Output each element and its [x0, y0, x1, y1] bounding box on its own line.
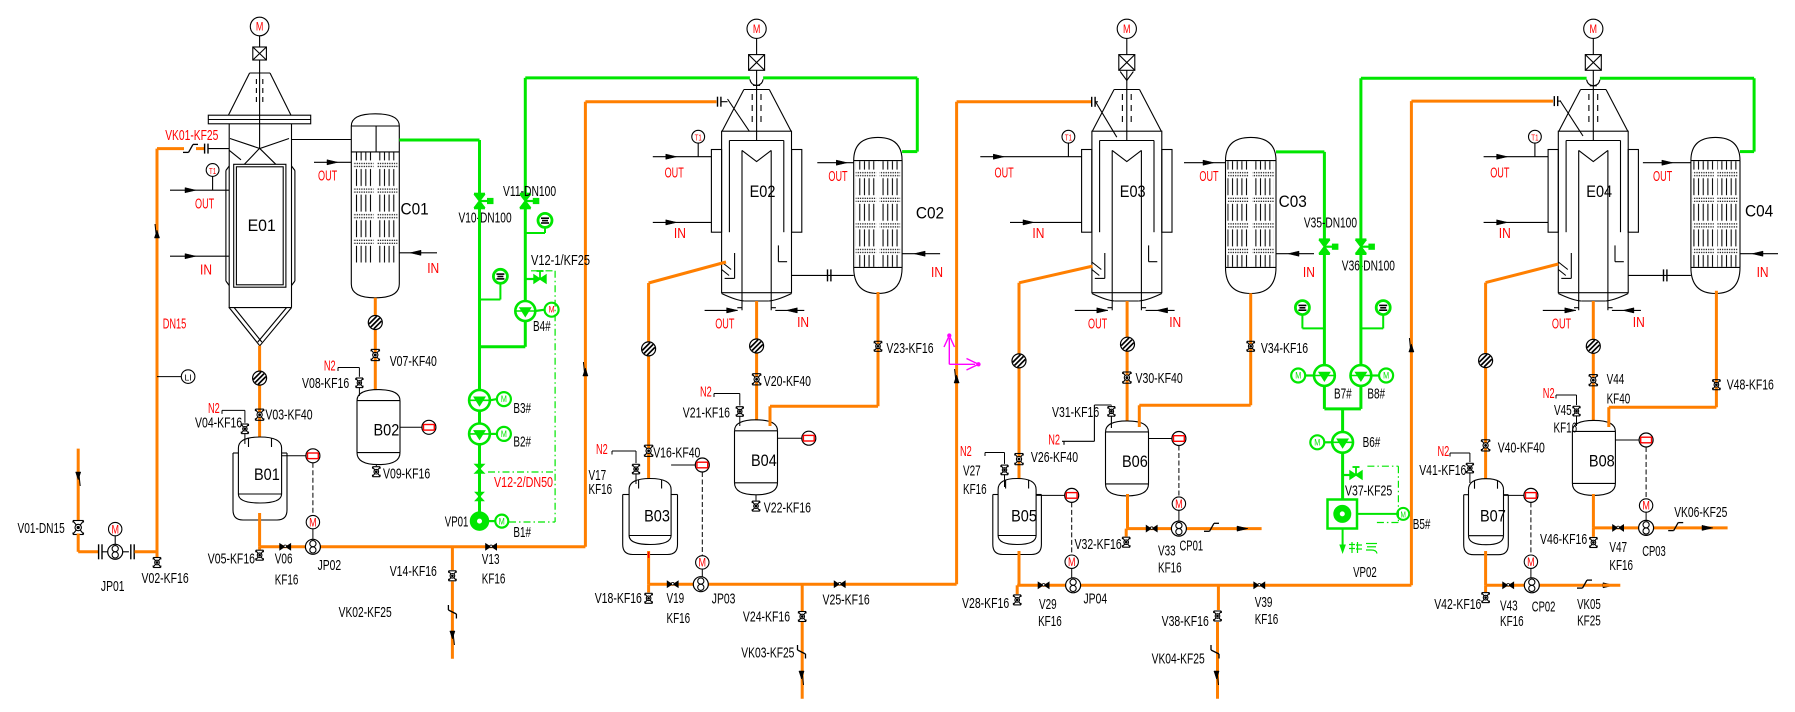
strainer on E01 outlet [253, 371, 267, 385]
svg-text:IN: IN [674, 225, 686, 242]
valve V40-KF40 [1481, 440, 1489, 451]
evaporator E03 draft pockets [1092, 245, 1158, 278]
svg-text:IN: IN [1303, 264, 1315, 281]
svg-text:KF40: KF40 [1607, 390, 1631, 407]
label V26-KF40 [1031, 449, 1078, 466]
label V33 [1158, 543, 1182, 577]
wire B05 to header [1018, 551, 1021, 585]
check valve VK05-KF25 [1577, 580, 1592, 588]
label V32-KF16 [1075, 536, 1122, 553]
svg-text:V18-KF16: V18-KF16 [595, 590, 642, 607]
label IN C03 [1303, 264, 1315, 281]
condenser C03 shell [1226, 137, 1277, 293]
vent notch E03 [1120, 72, 1133, 81]
valve V35-DN100 [1319, 240, 1338, 254]
svg-text:V04-KF16: V04-KF16 [195, 415, 242, 432]
motor M of E02 [747, 19, 766, 54]
label VK01-KF25 [165, 127, 218, 144]
valve V44-KF40 [1589, 375, 1597, 386]
E02 bottom IN stub [775, 308, 804, 313]
agitator shaft E01 [259, 60, 261, 148]
label V02-KF16 [142, 570, 189, 587]
label V12-1/KF25 [531, 252, 590, 269]
svg-text:OUT: OUT [1199, 168, 1218, 185]
svg-text:IN: IN [1169, 314, 1181, 331]
evaporator E01 flange [208, 115, 310, 124]
svg-text:V37-KF25: V37-KF25 [1345, 483, 1392, 500]
junction V38 [1217, 585, 1220, 610]
svg-text:V48-KF16: V48-KF16 [1727, 377, 1774, 394]
pump JP02 [305, 539, 320, 554]
check valve VK01-KF25 [183, 144, 198, 152]
relief VK04-KF25 [1211, 645, 1219, 659]
svg-text:M: M [1383, 371, 1389, 381]
svg-text:V36-DN100: V36-DN100 [1342, 258, 1395, 275]
wire green B4 to main [480, 321, 526, 347]
E01 jacket OUT stub [170, 188, 229, 193]
pump CP02 [1524, 578, 1539, 593]
vacuum pump VP01 [471, 513, 508, 530]
label N2 B07 [1438, 443, 1450, 460]
svg-text:N2: N2 [1438, 443, 1450, 460]
nitrogen line V04-KF16 [222, 410, 249, 444]
nitrogen line V21-KF16 [714, 394, 743, 427]
flow arrow drain1 [450, 631, 455, 645]
svg-text:M: M [256, 20, 264, 34]
svg-text:V32-KF16: V32-KF16 [1075, 536, 1122, 553]
valve V18-KF16 [645, 584, 653, 603]
flow arrow riser1 up [583, 362, 588, 376]
wire drain train3 [1216, 622, 1219, 699]
gearbox of E04 [1585, 55, 1601, 71]
svg-text:V39: V39 [1255, 594, 1273, 611]
label V01-DN15 [18, 520, 65, 537]
gauge on V10 line [480, 269, 508, 299]
label B02 [374, 422, 400, 440]
svg-text:CP03: CP03 [1642, 543, 1666, 560]
label OUT E04 bottom [1552, 315, 1571, 332]
svg-text:N2: N2 [324, 357, 336, 374]
wire riser2 [957, 102, 1091, 584]
nitrogen line V17-KF16 [612, 451, 640, 484]
label V48-KF16 [1727, 377, 1774, 394]
label V47 [1609, 539, 1633, 574]
svg-text:OUT: OUT [715, 315, 734, 332]
svg-text:V12-1/KF25: V12-1/KF25 [531, 252, 590, 269]
nitrogen line V31-KF16 [1062, 405, 1115, 445]
label CP03 [1642, 543, 1666, 560]
svg-text:JP02: JP02 [318, 557, 342, 574]
svg-text:VP02: VP02 [1353, 564, 1377, 581]
svg-text:T1: T1 [1065, 134, 1073, 143]
valve V03-KF40 [255, 409, 263, 420]
svg-text:VK05: VK05 [1577, 596, 1601, 613]
svg-text:KF16: KF16 [1255, 611, 1279, 628]
wire green V10 down [478, 208, 481, 521]
E04 bottom OUT stub [1543, 308, 1576, 313]
evaporator E01 top cone [228, 73, 291, 115]
svg-text:V19: V19 [667, 590, 685, 607]
motor M of JP01 [109, 522, 122, 544]
wire green V35 down [1323, 254, 1326, 366]
svg-text:V20-KF40: V20-KF40 [764, 373, 811, 390]
pump B2# [469, 424, 511, 445]
vessel B07 inner [1469, 479, 1504, 545]
svg-text:DN15: DN15 [163, 315, 187, 332]
evaporator E04 draft pockets [1558, 245, 1624, 278]
strainer on E04 drain [1479, 354, 1493, 368]
E01 jacket IN stub [170, 254, 229, 259]
E04 jacket OUT stub [1484, 154, 1549, 159]
label IN C01 [427, 260, 439, 277]
dashed enclosure vacuum skid 2 [1367, 466, 1398, 522]
label C03 [1279, 193, 1307, 211]
wire E03 to B06 [1126, 301, 1129, 421]
label V43 [1500, 597, 1524, 630]
wire header train4 [1486, 584, 1603, 587]
svg-text:OUT: OUT [1653, 168, 1672, 185]
label V06 [275, 551, 299, 589]
label V34-KF16 [1261, 340, 1308, 357]
label V29 [1038, 596, 1062, 630]
svg-text:OUT: OUT [995, 165, 1014, 182]
strainer on E03 drain [1012, 354, 1026, 368]
C03 OUT stub [1184, 160, 1226, 165]
svg-text:VP01: VP01 [445, 514, 469, 531]
valve V14-KF16 [449, 571, 457, 581]
label B5# [1413, 516, 1431, 533]
C04 IN stub [1740, 251, 1778, 256]
wire C04 outlet [1609, 291, 1717, 427]
valve V34-KF16 [1247, 341, 1255, 351]
label V44-KF40 [1607, 371, 1631, 407]
label CP02 [1532, 599, 1556, 616]
svg-text:IN: IN [797, 314, 809, 331]
wire DN15 riser [156, 149, 159, 552]
vacuum pump VP02 [1328, 500, 1410, 529]
condenser C01 tube bundle [353, 153, 397, 263]
label IN E03 bottom [1169, 314, 1181, 331]
label VK03-KF25 [741, 645, 794, 662]
svg-text:C04: C04 [1745, 202, 1773, 220]
label V13 [482, 551, 506, 588]
strainer on E03 outlet [1121, 337, 1135, 351]
svg-text:B05: B05 [1011, 508, 1037, 526]
strainer on E02 outlet [750, 339, 764, 353]
flange at E03 inlet [1092, 97, 1117, 137]
gearbox of E03 [1119, 55, 1135, 71]
vessel B07 shell [1464, 495, 1509, 555]
label OUT E03 bottom [1088, 315, 1107, 332]
evaporator E03 bottom dish [1092, 294, 1162, 302]
gauge on V11 line [525, 213, 552, 233]
label V37-KF25 [1345, 483, 1392, 500]
svg-text:V13: V13 [482, 551, 500, 568]
label V27-KF16 [963, 462, 987, 498]
fitting below V12-2 [476, 493, 483, 501]
wire E04 to C04 [1628, 269, 1691, 281]
valve V47 [1613, 525, 1624, 531]
svg-text:KF16: KF16 [589, 481, 613, 498]
vessel B06 shell [1106, 421, 1149, 496]
E03 bottom IN stub [1146, 308, 1175, 313]
label V11-DN100 [503, 183, 556, 200]
gauge on V36 line [1361, 301, 1390, 329]
pump JP01 [99, 544, 135, 559]
level instrument on riser [157, 370, 195, 384]
label B1# [513, 524, 531, 541]
svg-text:V23-KF16: V23-KF16 [886, 340, 933, 357]
svg-text:OUT: OUT [665, 165, 684, 182]
wire JP01 to riser [135, 550, 159, 553]
label VK02-KF25 [339, 604, 392, 621]
label V23-KF16 [886, 340, 933, 357]
svg-text:V34-KF16: V34-KF16 [1261, 340, 1308, 357]
label B07 [1480, 508, 1506, 526]
evaporator E02 top cone [722, 90, 791, 132]
svg-text:V26-KF40: V26-KF40 [1031, 449, 1078, 466]
evaporator E02 body [722, 131, 792, 310]
wire B01 to header [258, 513, 261, 547]
wire E03 drain diagonal [1019, 266, 1093, 478]
flow arrow feed down [76, 472, 81, 486]
condenser C03 tube bundle [1228, 161, 1275, 267]
condenser C02 tube bundle [856, 161, 900, 267]
svg-text:M: M [1527, 555, 1535, 569]
level transmitter B06 [1149, 432, 1186, 522]
motor M of E03 [1117, 19, 1136, 54]
wire B03 to header [647, 551, 650, 584]
agitator shaft E04 [1589, 70, 1598, 140]
valve V36-DN100 [1355, 240, 1374, 254]
svg-text:M: M [1642, 499, 1650, 513]
svg-text:KF25: KF25 [1577, 612, 1601, 629]
svg-text:M: M [501, 429, 507, 439]
label N2 B04 [700, 383, 712, 400]
svg-text:OUT: OUT [1552, 315, 1571, 332]
instrument T1 on E03 [1062, 130, 1075, 156]
evaporator E02 bottom dish [722, 294, 792, 302]
wire E02 to C02 [792, 269, 854, 281]
nitrogen line V27-KF16 [985, 453, 1008, 488]
label V03-KF40 [265, 406, 312, 423]
flow arrow drain2 [799, 671, 804, 685]
svg-text:V33: V33 [1158, 543, 1176, 560]
svg-text:VK03-KF25: VK03-KF25 [741, 645, 794, 662]
label V40-KF40 [1498, 439, 1545, 456]
wire green V11 down [524, 208, 527, 311]
label B01 [254, 466, 280, 484]
valve V12-2 [475, 465, 483, 474]
svg-text:M: M [753, 22, 761, 36]
label OUT C03 [1199, 168, 1218, 185]
wire E04 to B08 [1592, 301, 1595, 420]
svg-text:B4#: B4# [533, 318, 551, 335]
svg-text:V05-KF16: V05-KF16 [208, 550, 255, 567]
valve V09-KF16 [373, 465, 381, 477]
level transmitter B05 [1036, 488, 1079, 577]
agitator shaft E02 [752, 70, 761, 140]
label E04 [1586, 183, 1612, 201]
svg-text:KF16: KF16 [482, 571, 506, 588]
label IN E04 [1499, 225, 1511, 242]
valve V24-KF16 [798, 612, 806, 622]
valve V16-KF40 [644, 445, 652, 456]
label JP04 [1084, 591, 1108, 608]
wire header train3 [1017, 584, 1411, 587]
label JP02 [318, 557, 342, 574]
valve V28-KF16 [1013, 585, 1021, 605]
wire V01 to JP01 [78, 534, 98, 552]
vessel B03 shell [623, 495, 678, 555]
svg-text:E02: E02 [750, 183, 776, 201]
svg-text:V02-KF16: V02-KF16 [142, 570, 189, 587]
svg-text:KF16: KF16 [1609, 557, 1633, 574]
svg-text:M: M [499, 517, 505, 527]
valve V19 [667, 581, 678, 587]
vessel B02 shell [357, 390, 400, 465]
motor M of E04 [1584, 19, 1603, 54]
label N2 B03 [596, 441, 608, 458]
flange at E04 inlet [1554, 96, 1583, 136]
svg-text:V22-KF16: V22-KF16 [764, 499, 811, 516]
label OUT E04 [1490, 165, 1509, 182]
svg-text:V06: V06 [275, 551, 293, 568]
wire C02 outlet [770, 292, 878, 426]
svg-text:B6#: B6# [1363, 434, 1381, 451]
valve V01-DN15 [73, 521, 84, 535]
label V17-KF16 [589, 467, 613, 498]
label N2 B08 [1543, 385, 1555, 402]
svg-text:LI: LI [185, 374, 192, 383]
C01 IN stub [399, 250, 437, 255]
svg-text:IN: IN [200, 262, 212, 279]
svg-text:V14-KF16: V14-KF16 [390, 563, 437, 580]
svg-text:IN: IN [1633, 314, 1645, 331]
svg-text:V35-DN100: V35-DN100 [1304, 215, 1357, 232]
vapor seal cup E04 [1587, 80, 1600, 86]
wire B08 to CP03 [1593, 494, 1727, 528]
flow arrow drain3 [1214, 671, 1219, 685]
svg-text:VK06-KF25: VK06-KF25 [1674, 504, 1727, 521]
svg-text:V45: V45 [1554, 402, 1572, 419]
vessel B03 inner [629, 479, 671, 545]
valve V07-KF40 [371, 349, 379, 360]
agitator shaft E03 [1122, 70, 1131, 140]
label V21-KF16 [683, 404, 730, 421]
pump JP04 [1066, 578, 1081, 593]
strainer on C01 outlet [368, 316, 382, 330]
label N2 B05 [960, 443, 972, 460]
label V05-KF16 [208, 550, 255, 567]
svg-text:V21-KF16: V21-KF16 [683, 404, 730, 421]
nitrogen line V08-KF16 [338, 368, 363, 397]
valve V25-KF16 [834, 581, 845, 587]
svg-text:V38-KF16: V38-KF16 [1162, 613, 1209, 630]
wire green C03 to V35 [1276, 152, 1324, 240]
svg-text:M: M [1590, 22, 1598, 36]
svg-text:T1: T1 [695, 134, 703, 143]
svg-text:V42-KF16: V42-KF16 [1434, 596, 1481, 613]
svg-text:V01-DN15: V01-DN15 [18, 520, 65, 537]
wire E04 drain diagonal [1486, 264, 1559, 479]
flow arrow riser4 up [1409, 338, 1414, 352]
label B05 [1011, 508, 1037, 526]
pump B8# [1351, 365, 1394, 386]
strainer on E02 drain [642, 342, 656, 356]
svg-text:CP02: CP02 [1532, 599, 1556, 616]
svg-text:KF16: KF16 [1500, 613, 1524, 630]
wire green overhead E04 [1361, 78, 1754, 151]
dashed enclosure vacuum skid 1 [488, 271, 555, 522]
label OUT E02 bottom [715, 315, 734, 332]
label paiqi exhaust [1349, 542, 1377, 554]
condenser C01 shell [351, 114, 399, 298]
svg-text:M: M [1123, 22, 1131, 36]
pump B6# [1310, 432, 1353, 453]
exhaust arrow VP02 [1340, 529, 1345, 553]
svg-text:N2: N2 [1048, 432, 1060, 449]
C02 OUT stub [817, 160, 853, 165]
svg-text:T1: T1 [209, 167, 217, 176]
check valve after CP01 [1204, 523, 1219, 531]
svg-text:V09-KF16: V09-KF16 [383, 465, 430, 482]
flow arrow CP03 out [1702, 525, 1713, 530]
svg-text:B8#: B8# [1367, 385, 1385, 402]
label C04 [1745, 202, 1773, 220]
svg-text:M: M [1175, 497, 1183, 511]
pump B3# [469, 390, 511, 411]
svg-text:KF16: KF16 [1158, 560, 1182, 577]
label V25-KF16 [823, 592, 870, 609]
label V04-KF16 [195, 415, 242, 432]
svg-text:OUT: OUT [1490, 165, 1509, 182]
label V42-KF16 [1434, 596, 1481, 613]
label E03 [1120, 183, 1146, 201]
valve V46-KF16 [1590, 528, 1598, 548]
label V30-KF40 [1136, 370, 1183, 387]
valve V23-KF16 [874, 341, 882, 351]
E04 bottom IN stub [1612, 308, 1641, 313]
E03 jacket IN stub [1010, 220, 1082, 225]
valve V12-1/KF25 [525, 271, 546, 283]
svg-text:M: M [501, 394, 507, 404]
label IN C04 [1757, 264, 1769, 281]
valve V20-KF40 [752, 374, 760, 385]
label V19 [667, 590, 691, 627]
vapor seal cup E02 [750, 79, 763, 85]
svg-text:E01: E01 [248, 217, 276, 235]
svg-text:IN: IN [1757, 264, 1769, 281]
evaporator E02 draft pockets [722, 245, 788, 278]
svg-text:C02: C02 [916, 204, 944, 222]
label V07-KF40 [390, 353, 437, 370]
evaporator E01 internals [230, 139, 289, 288]
svg-text:M: M [1401, 510, 1407, 519]
wire riser1 [585, 102, 716, 547]
evaporator E03 body [1092, 131, 1162, 310]
valve V37-KF25 [1343, 467, 1362, 479]
svg-text:M: M [549, 305, 555, 315]
wire B06 to CP01 [1128, 494, 1262, 529]
label V36-DN100 [1342, 258, 1395, 275]
evaporator E04 top cone [1559, 90, 1628, 132]
wire E02 to B04 [755, 301, 758, 420]
svg-text:JP01: JP01 [101, 578, 125, 595]
label B8# [1367, 385, 1385, 402]
label V20-KF40 [764, 373, 811, 390]
wire B07 to header [1484, 551, 1487, 585]
